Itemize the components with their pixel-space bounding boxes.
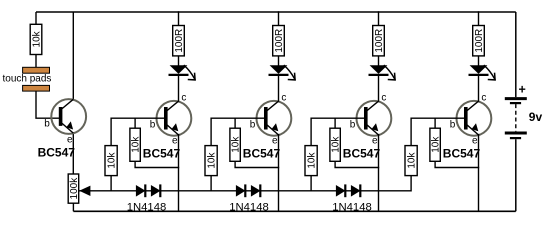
svg-text:e: e bbox=[67, 135, 73, 146]
svg-text:+: + bbox=[519, 83, 526, 97]
svg-text:touch pads: touch pads bbox=[3, 74, 52, 85]
svg-text:1N4148: 1N4148 bbox=[332, 202, 372, 214]
svg-text:1N4148: 1N4148 bbox=[229, 202, 269, 214]
svg-text:1N4148: 1N4148 bbox=[127, 202, 167, 214]
svg-text:BC547: BC547 bbox=[38, 146, 76, 160]
svg-text:9v: 9v bbox=[529, 110, 543, 124]
svg-text:100k: 100k bbox=[69, 177, 80, 200]
svg-text:b: b bbox=[44, 119, 50, 130]
svg-text:10k: 10k bbox=[32, 30, 43, 47]
